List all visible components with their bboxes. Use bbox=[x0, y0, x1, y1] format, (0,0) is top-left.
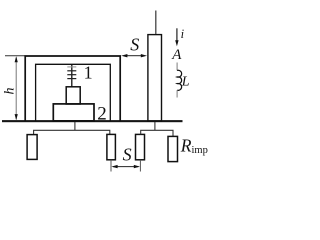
vertical plate antenna bbox=[148, 35, 162, 121]
dimension arrow S bottom bbox=[111, 165, 140, 168]
label L bbox=[181, 75, 190, 90]
svg-text:1: 1 bbox=[84, 63, 93, 83]
dimension arrow h bbox=[15, 56, 18, 120]
svg-text:L: L bbox=[181, 75, 190, 90]
feed wire above plate bbox=[155, 11, 157, 35]
outer shield box bbox=[25, 56, 120, 121]
pedestal 2 bbox=[53, 104, 94, 121]
resistor Rimp bbox=[168, 136, 178, 161]
extension lines below resistors bbox=[111, 160, 140, 172]
svg-text:S: S bbox=[130, 34, 139, 54]
left bus wire bbox=[34, 122, 110, 135]
resistor left bbox=[27, 135, 37, 160]
label h bbox=[3, 88, 18, 95]
svg-text:h: h bbox=[3, 88, 18, 95]
svg-text:A: A bbox=[171, 47, 182, 63]
monopole rod bbox=[71, 65, 73, 87]
ground plane bbox=[2, 120, 183, 122]
current arrow i bbox=[175, 28, 178, 46]
wire top extension line bbox=[5, 55, 25, 57]
svg-text:2: 2 bbox=[97, 104, 107, 125]
label S bottom bbox=[123, 145, 132, 165]
right bus wire bbox=[141, 122, 173, 136]
resistor B bbox=[136, 134, 145, 159]
resistor A bbox=[107, 134, 116, 159]
inductor L bbox=[177, 63, 182, 98]
dimension arrow S top bbox=[121, 54, 147, 57]
node A bbox=[171, 47, 182, 63]
rod tick marks bbox=[67, 67, 76, 79]
svg-text:S: S bbox=[123, 145, 132, 165]
label S top bbox=[130, 34, 139, 54]
svg-text:i: i bbox=[181, 27, 185, 41]
label Rimp bbox=[180, 135, 208, 156]
label 1 bbox=[84, 63, 93, 83]
label i bbox=[181, 27, 185, 41]
inner shield box bbox=[36, 64, 111, 121]
svg-text:Rimp: Rimp bbox=[180, 135, 208, 156]
label 2 bbox=[97, 104, 107, 125]
antenna base box bbox=[66, 87, 80, 104]
